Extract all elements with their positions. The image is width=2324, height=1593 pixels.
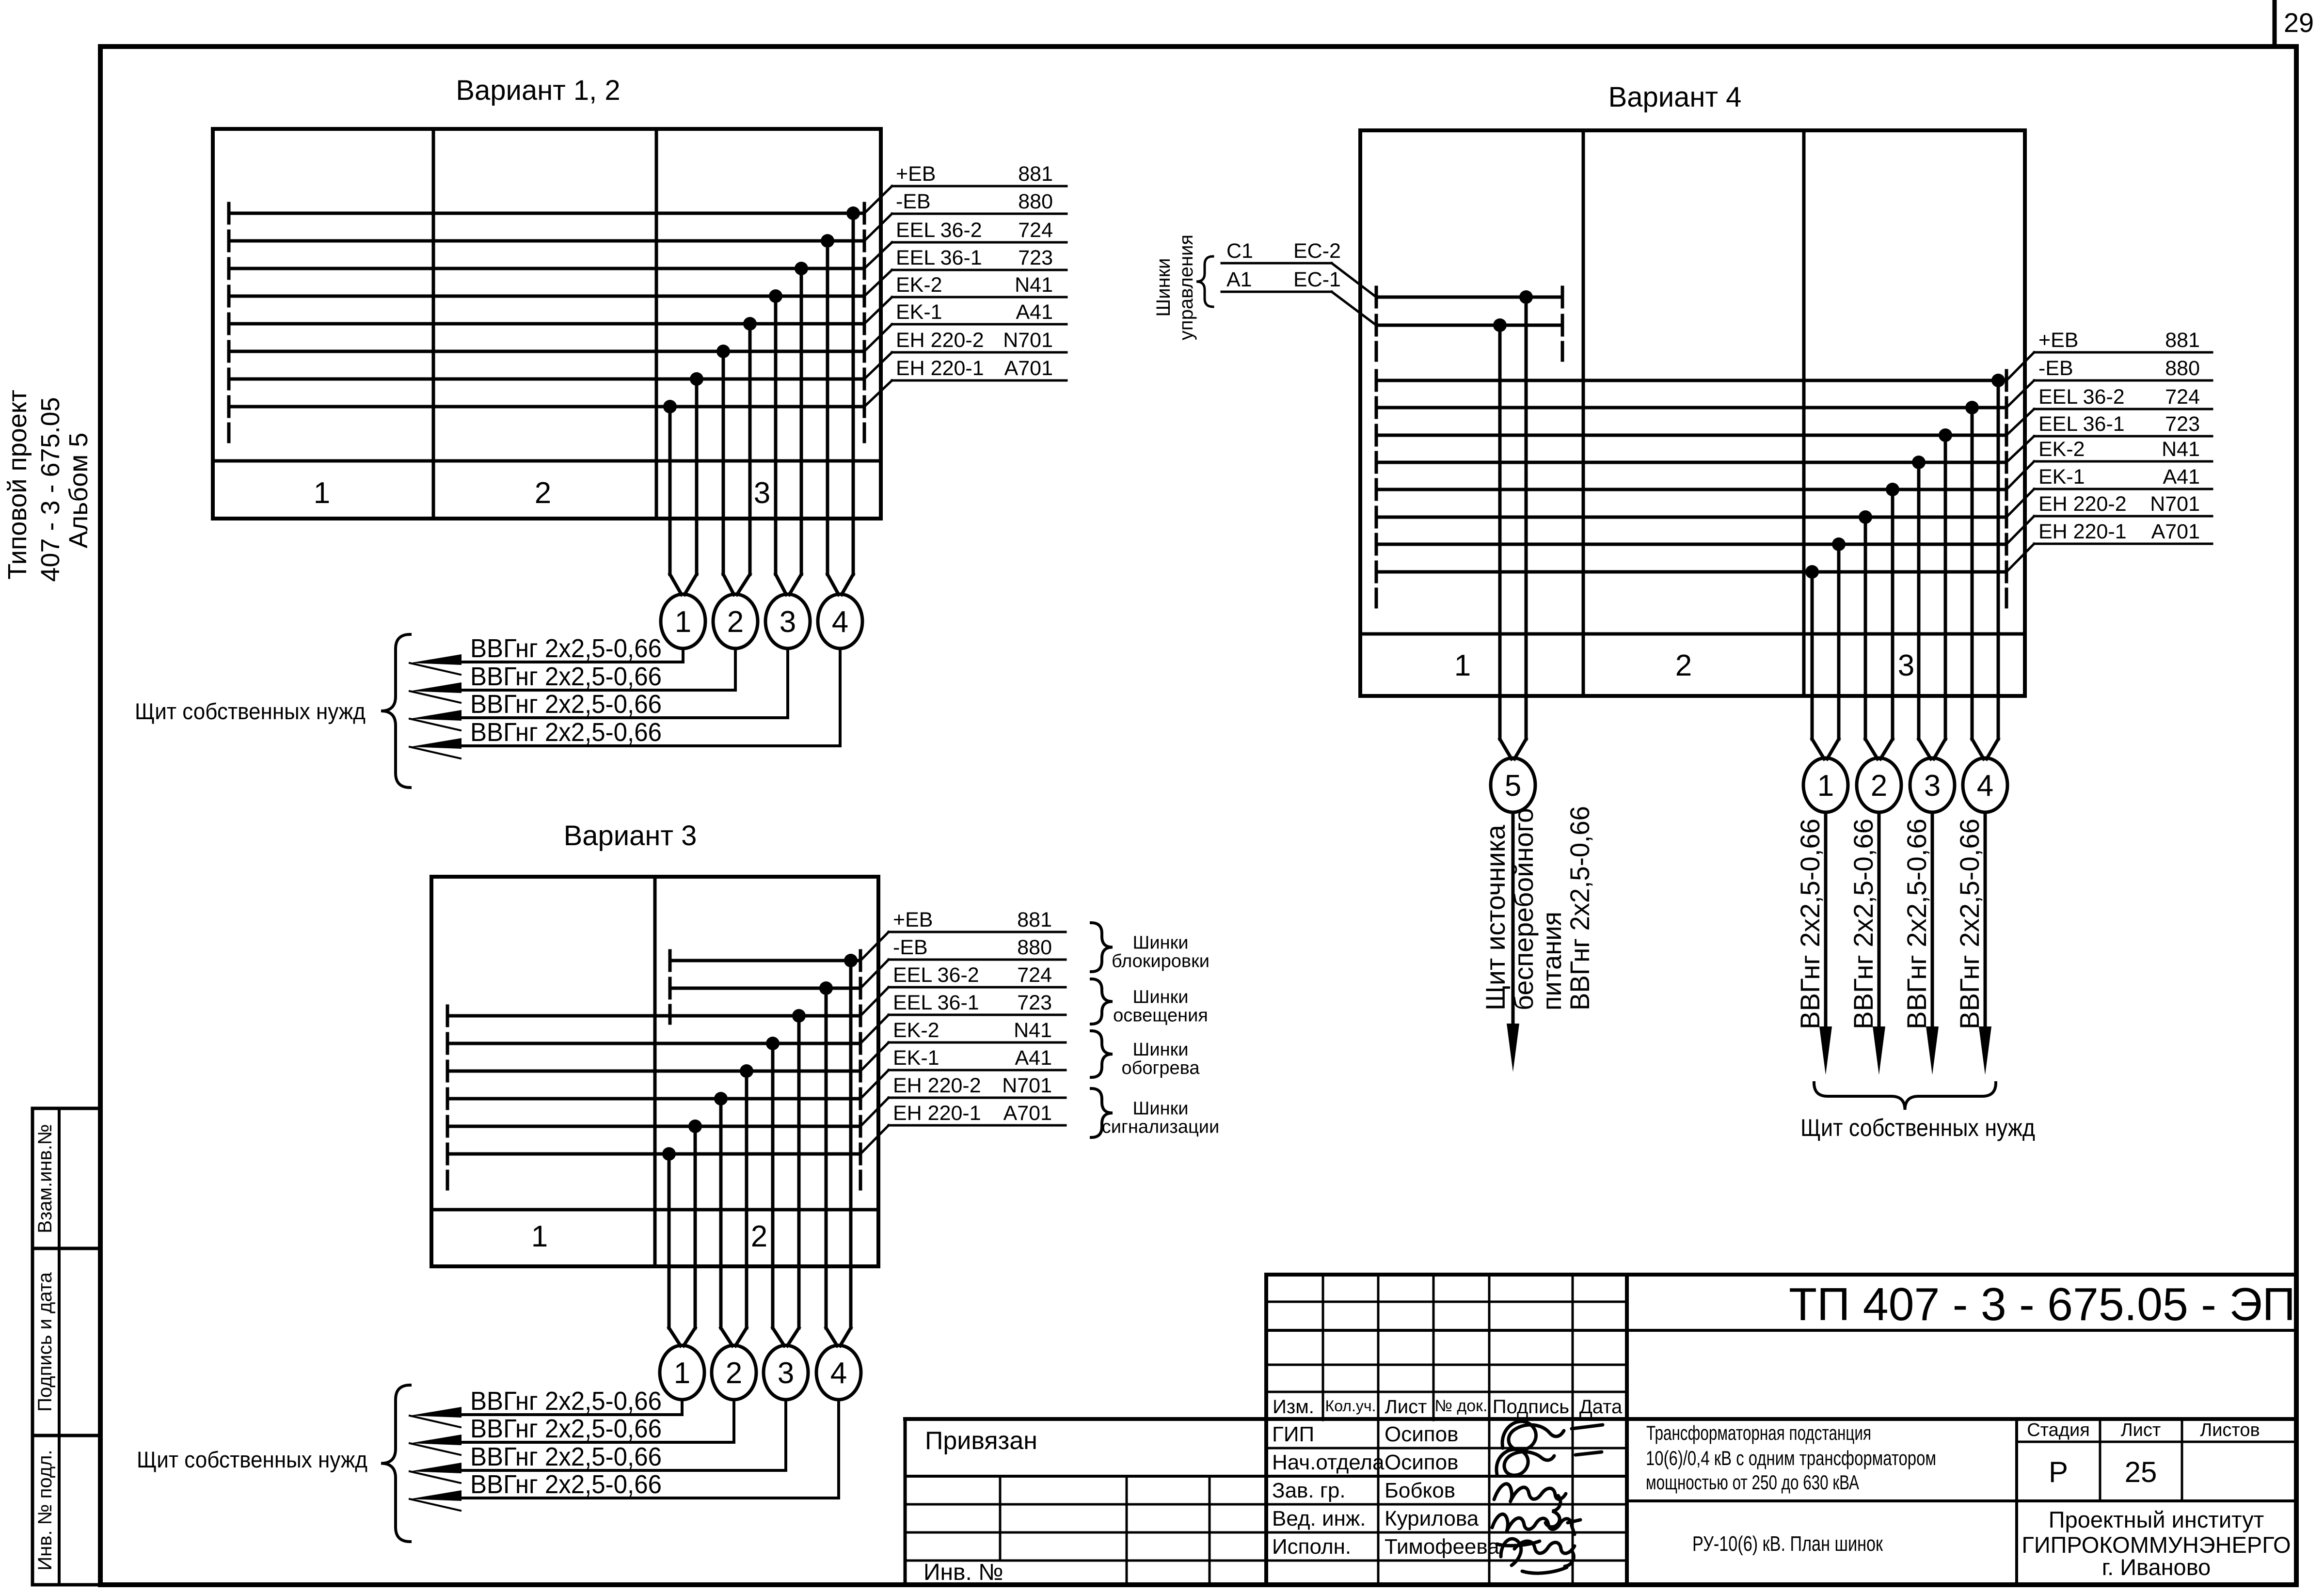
svg-text:2: 2 <box>751 1220 767 1253</box>
svg-text:1: 1 <box>674 1356 690 1390</box>
svg-text:EEL 36-1: EEL 36-1 <box>2038 412 2125 436</box>
svg-text:EK-1: EK-1 <box>893 1046 939 1070</box>
svg-text:-EB: -EB <box>896 190 931 213</box>
svg-text:Щит источника: Щит источника <box>1480 824 1511 1010</box>
svg-text:EEL 36-1: EEL 36-1 <box>896 246 982 269</box>
svg-text:Бобков: Бобков <box>1385 1479 1455 1502</box>
svg-text:EK-2: EK-2 <box>2038 438 2085 461</box>
svg-text:ТП 407 - 3 - 675.05 - ЭП: ТП 407 - 3 - 675.05 - ЭП <box>1789 1278 2295 1330</box>
svg-text:25: 25 <box>2125 1456 2157 1488</box>
svg-text:ГИП: ГИП <box>1272 1422 1314 1446</box>
svg-text:РУ-10(6) кВ. План шинок: РУ-10(6) кВ. План шинок <box>1692 1532 1883 1556</box>
svg-text:питания: питания <box>1536 912 1567 1010</box>
svg-text:ВВГнг 2х2,5-0,66: ВВГнг 2х2,5-0,66 <box>470 1387 662 1416</box>
svg-text:ВВГнг 2х2,5-0,66: ВВГнг 2х2,5-0,66 <box>470 634 662 663</box>
svg-text:A701: A701 <box>1003 1102 1052 1125</box>
svg-text:С1: С1 <box>1226 239 1253 263</box>
svg-text:EEL 36-2: EEL 36-2 <box>893 963 979 987</box>
svg-text:3: 3 <box>1924 769 1941 803</box>
svg-text:3: 3 <box>780 605 796 639</box>
svg-text:Типовой проект: Типовой проект <box>3 390 32 580</box>
svg-text:1: 1 <box>1817 769 1834 803</box>
svg-text:EK-1: EK-1 <box>2038 465 2085 489</box>
svg-text:Трансформаторная подстанция: Трансформаторная подстанция <box>1646 1421 1871 1444</box>
svg-text:ВВГнг 2х2,5-0,66: ВВГнг 2х2,5-0,66 <box>470 718 662 747</box>
svg-text:Вариант 1, 2: Вариант 1, 2 <box>456 75 620 106</box>
svg-text:ВВГнг 2х2,5-0,66: ВВГнг 2х2,5-0,66 <box>470 1414 662 1443</box>
svg-text:Тимофеева: Тимофеева <box>1385 1535 1499 1559</box>
svg-text:освещения: освещения <box>1113 1006 1208 1026</box>
svg-text:2: 2 <box>726 1356 742 1390</box>
svg-text:Альбом 5: Альбом 5 <box>64 433 93 549</box>
svg-text:N41: N41 <box>1014 1019 1052 1042</box>
svg-text:723: 723 <box>1018 246 1053 269</box>
svg-text:881: 881 <box>1017 908 1052 931</box>
svg-text:A41: A41 <box>1016 300 1053 324</box>
svg-text:Осипов: Осипов <box>1385 1422 1458 1446</box>
svg-text:Исполн.: Исполн. <box>1272 1535 1351 1559</box>
svg-text:724: 724 <box>2165 385 2200 409</box>
svg-text:-EB: -EB <box>2038 357 2073 380</box>
svg-text:724: 724 <box>1018 219 1053 242</box>
svg-text:Лист: Лист <box>2121 1420 2161 1440</box>
svg-text:A701: A701 <box>1004 357 1053 380</box>
svg-text:Зав. гр.: Зав. гр. <box>1272 1479 1346 1502</box>
svg-text:Дата: Дата <box>1579 1396 1623 1418</box>
svg-text:Щит собственных нужд: Щит собственных нужд <box>1800 1114 2035 1141</box>
svg-text:Курилова: Курилова <box>1385 1507 1479 1530</box>
svg-text:N701: N701 <box>1002 1074 1052 1097</box>
svg-text:EEL 36-1: EEL 36-1 <box>893 991 979 1014</box>
svg-text:ВВГнг 2х2,5-0,66: ВВГнг 2х2,5-0,66 <box>1564 806 1595 1010</box>
svg-text:Взам.инв.№: Взам.инв.№ <box>34 1124 56 1233</box>
svg-text:2: 2 <box>535 476 551 510</box>
svg-text:Проектный институт: Проектный институт <box>2049 1507 2264 1532</box>
svg-text:3: 3 <box>778 1356 794 1390</box>
svg-text:Листов: Листов <box>2200 1420 2260 1440</box>
svg-text:Стадия: Стадия <box>2027 1420 2090 1440</box>
svg-text:Подпись: Подпись <box>1493 1396 1569 1418</box>
svg-text:EH 220-2: EH 220-2 <box>893 1074 981 1097</box>
svg-text:A701: A701 <box>2151 520 2200 543</box>
svg-text:Подпись и дата: Подпись и дата <box>34 1272 56 1411</box>
svg-text:Вед. инж.: Вед. инж. <box>1272 1507 1366 1530</box>
svg-text:Кол.уч.: Кол.уч. <box>1325 1397 1376 1415</box>
svg-text:EH 220-1: EH 220-1 <box>893 1102 981 1125</box>
svg-text:А1: А1 <box>1226 268 1252 291</box>
svg-text:Инв. №: Инв. № <box>923 1560 1003 1585</box>
svg-text:ЕС-1: ЕС-1 <box>1293 268 1341 291</box>
svg-text:Изм.: Изм. <box>1273 1396 1314 1418</box>
svg-text:ВВГнг 2х2,5-0,66: ВВГнг 2х2,5-0,66 <box>1848 819 1878 1029</box>
svg-text:880: 880 <box>2165 357 2200 380</box>
svg-text:№ док.: № док. <box>1435 1397 1488 1415</box>
svg-text:ВВГнг 2х2,5-0,66: ВВГнг 2х2,5-0,66 <box>1795 819 1825 1029</box>
svg-text:мощностью от 250 до 630 кВА: мощностью от 250 до 630 кВА <box>1646 1471 1859 1494</box>
svg-text:Щит собственных нужд: Щит собственных нужд <box>137 1447 367 1472</box>
svg-text:1: 1 <box>314 476 330 510</box>
svg-text:10(6)/0,4 кВ с одним трансформ: 10(6)/0,4 кВ с одним трансформатором <box>1646 1447 1936 1469</box>
svg-text:EH 220-1: EH 220-1 <box>2038 520 2127 543</box>
svg-text:Вариант 4: Вариант 4 <box>1608 81 1742 113</box>
svg-text:EH 220-2: EH 220-2 <box>2038 492 2127 516</box>
svg-text:2: 2 <box>727 605 744 639</box>
svg-text:N701: N701 <box>2150 492 2200 516</box>
svg-text:Нач.отдела: Нач.отдела <box>1272 1451 1385 1474</box>
svg-text:EEL 36-2: EEL 36-2 <box>2038 385 2125 409</box>
svg-text:Шинки: Шинки <box>1133 987 1189 1008</box>
svg-text:Шинки: Шинки <box>1133 933 1189 953</box>
svg-text:Шинки: Шинки <box>1133 1040 1189 1060</box>
svg-text:A41: A41 <box>1015 1046 1052 1070</box>
svg-text:880: 880 <box>1017 936 1052 959</box>
svg-text:Инв. № подл.: Инв. № подл. <box>34 1450 56 1570</box>
svg-text:Вариант 3: Вариант 3 <box>564 820 697 852</box>
svg-text:ВВГнг 2х2,5-0,66: ВВГнг 2х2,5-0,66 <box>470 1442 662 1471</box>
svg-text:1: 1 <box>531 1220 548 1253</box>
svg-text:+EB: +EB <box>893 908 933 931</box>
svg-text:5: 5 <box>1505 769 1521 803</box>
svg-text:сигнализации: сигнализации <box>1102 1117 1219 1137</box>
svg-text:Осипов: Осипов <box>1385 1451 1458 1474</box>
svg-text:EH 220-2: EH 220-2 <box>896 329 984 352</box>
svg-text:723: 723 <box>1017 991 1052 1014</box>
svg-text:724: 724 <box>1017 963 1052 987</box>
svg-text:EK-2: EK-2 <box>893 1019 939 1042</box>
svg-text:4: 4 <box>832 605 848 639</box>
svg-text:EK-2: EK-2 <box>896 273 942 297</box>
svg-text:Р: Р <box>2049 1456 2068 1488</box>
svg-text:г. Иваново: г. Иваново <box>2102 1554 2211 1580</box>
svg-text:EEL 36-2: EEL 36-2 <box>896 219 982 242</box>
svg-text:2: 2 <box>1871 769 1887 803</box>
svg-text:бесперебойного: бесперебойного <box>1508 808 1539 1010</box>
svg-text:Щит собственных нужд: Щит собственных нужд <box>135 698 366 724</box>
svg-text:управления: управления <box>1176 235 1197 340</box>
svg-text:N701: N701 <box>1003 329 1053 352</box>
svg-text:A41: A41 <box>2163 465 2200 489</box>
svg-text:ВВГнг 2х2,5-0,66: ВВГнг 2х2,5-0,66 <box>470 662 662 691</box>
svg-text:Шинки: Шинки <box>1153 258 1174 317</box>
svg-text:2: 2 <box>1675 649 1692 682</box>
svg-text:-EB: -EB <box>893 936 928 959</box>
svg-text:881: 881 <box>2165 329 2200 352</box>
svg-text:3: 3 <box>1898 649 1914 682</box>
svg-text:N41: N41 <box>2162 438 2200 461</box>
svg-text:Лист: Лист <box>1385 1396 1427 1418</box>
svg-text:1: 1 <box>675 605 691 639</box>
svg-text:N41: N41 <box>1015 273 1053 297</box>
svg-text:ЕС-2: ЕС-2 <box>1293 239 1341 263</box>
svg-text:880: 880 <box>1018 190 1053 213</box>
svg-text:1: 1 <box>1454 649 1471 682</box>
svg-text:407 - 3 - 675.05: 407 - 3 - 675.05 <box>36 397 65 582</box>
svg-text:+EB: +EB <box>896 162 936 186</box>
svg-text:29: 29 <box>2284 7 2314 38</box>
svg-text:блокировки: блокировки <box>1112 951 1210 972</box>
svg-text:ВВГнг 2х2,5-0,66: ВВГнг 2х2,5-0,66 <box>470 1470 662 1499</box>
svg-text:723: 723 <box>2165 412 2200 436</box>
svg-text:881: 881 <box>1018 162 1053 186</box>
svg-text:ВВГнг 2х2,5-0,66: ВВГнг 2х2,5-0,66 <box>1954 819 1985 1029</box>
svg-text:обогрева: обогрева <box>1121 1058 1200 1078</box>
svg-text:4: 4 <box>1977 769 1993 803</box>
svg-text:ВВГнг 2х2,5-0,66: ВВГнг 2х2,5-0,66 <box>470 690 662 719</box>
svg-text:+EB: +EB <box>2038 329 2078 352</box>
svg-text:ВВГнг 2х2,5-0,66: ВВГнг 2х2,5-0,66 <box>1901 819 1932 1029</box>
svg-text:Привязан: Привязан <box>925 1427 1037 1455</box>
svg-text:3: 3 <box>754 476 770 510</box>
svg-text:Шинки: Шинки <box>1133 1099 1189 1119</box>
svg-text:4: 4 <box>830 1356 847 1390</box>
svg-text:EK-1: EK-1 <box>896 300 942 324</box>
svg-text:EH 220-1: EH 220-1 <box>896 357 984 380</box>
